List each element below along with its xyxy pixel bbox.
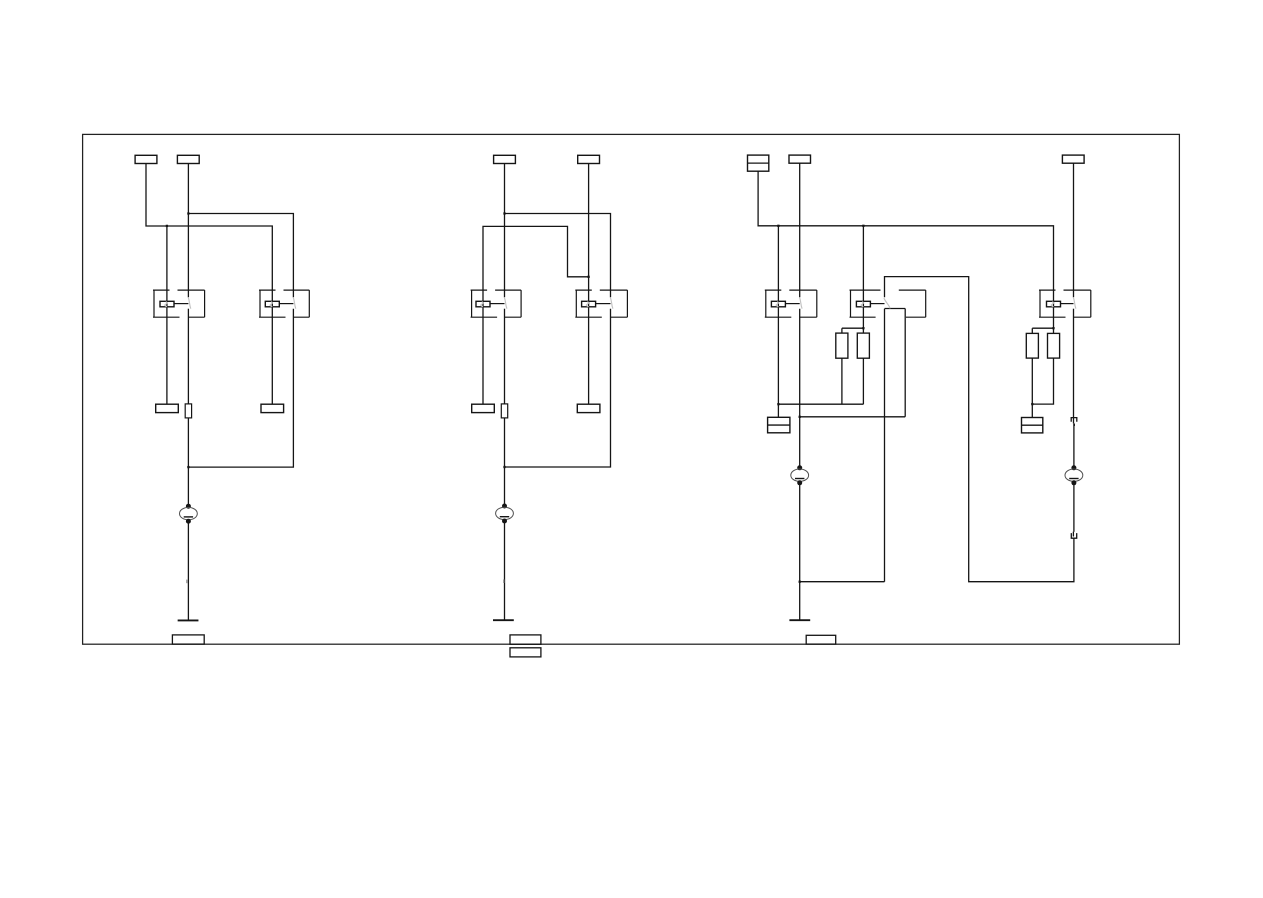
terminal B4	[806, 635, 836, 644]
terminal T7	[472, 404, 495, 412]
relay K7 contact arm	[1073, 297, 1076, 308]
wire T9 to relay K7 coil	[758, 171, 1053, 333]
wire resistor bottoms to terminal T13	[1032, 358, 1053, 417]
wire T1 to relay K2 coil	[146, 164, 272, 405]
terminal T8	[577, 404, 600, 412]
wire lamp E2 to ground	[504, 521, 506, 620]
node J10	[799, 581, 801, 583]
wire branch to relay K1 coil	[166, 226, 168, 404]
relay K4 contact arm	[610, 297, 613, 308]
resistor R1	[836, 333, 848, 358]
wire relay K4 contact to node J6	[505, 309, 611, 467]
relay K4 box	[575, 290, 627, 317]
node J6	[503, 466, 505, 468]
relay K3 coil	[476, 301, 490, 307]
wire T10 to relay K5 contact	[799, 163, 801, 297]
ground G1	[178, 619, 199, 621]
wire T11 to relay K7 contact	[1073, 163, 1075, 297]
terminal T4	[261, 404, 284, 412]
terminal T5	[494, 155, 516, 163]
wire relay K2 contact to node J3	[188, 309, 293, 467]
terminal T13	[1022, 418, 1043, 433]
wire relay K6 NO contact drop	[904, 309, 906, 417]
wire jog to relay K3 coil	[483, 226, 589, 404]
wire relay K3 contact to connector X2	[504, 309, 506, 404]
node J5	[587, 276, 589, 278]
node J2	[187, 212, 189, 214]
splice S1	[186, 580, 188, 584]
relay K5 contact arm	[800, 297, 803, 308]
wire lamp E1 to ground	[187, 521, 189, 620]
relay K3 coil-contact link	[490, 303, 505, 305]
relay K5 coil-contact link	[785, 303, 799, 305]
wire relay K7 contact to connector C1	[1073, 309, 1075, 418]
wire relay K1 contact to connector X1	[187, 309, 189, 404]
relay K6 contact arm	[884, 298, 890, 308]
relay K1 box	[153, 290, 205, 317]
wire lamp E3 to ground	[799, 483, 801, 621]
ground G2	[493, 619, 514, 621]
resistor R2	[857, 333, 869, 358]
wire node J9 to relay K6 NO contact	[800, 416, 906, 418]
node J3	[187, 466, 189, 468]
connector X1	[185, 404, 191, 418]
relay K3 box	[471, 290, 521, 317]
wire connector X2 to lamp E2	[504, 418, 506, 506]
node J9	[799, 416, 801, 418]
relay K4 coil	[582, 301, 596, 307]
wire resistor bottoms to node J12	[778, 358, 863, 404]
relay K6 coil-contact link	[870, 303, 884, 305]
terminal B2	[510, 635, 541, 644]
lamp E4	[1065, 465, 1083, 485]
node J8	[862, 225, 864, 227]
lamp E3	[791, 465, 809, 485]
relay K2 coil-contact link	[279, 303, 293, 305]
node J14	[1031, 403, 1033, 405]
wire T5 to relay K3 contact	[504, 164, 506, 298]
terminal T2	[177, 155, 199, 163]
wire relay K5 contact to lamp E3	[799, 309, 801, 468]
wire lamp E4 to connector C2	[1073, 483, 1075, 532]
relay K7 coil	[1047, 301, 1061, 307]
wire connector X1 to lamp E1	[187, 418, 189, 506]
terminal B1	[172, 635, 204, 644]
splice S2	[503, 579, 505, 583]
node J7	[777, 225, 779, 227]
wire branch to relay K5 coil	[777, 226, 779, 417]
ground G3	[789, 619, 810, 621]
node J13	[1052, 327, 1054, 329]
relay K5 coil	[771, 301, 785, 307]
relay K7 box	[1039, 290, 1091, 317]
node J11	[862, 327, 864, 329]
terminal T6	[578, 155, 600, 163]
terminal T12	[768, 417, 790, 433]
relay K7 coil-contact link	[1061, 303, 1074, 305]
relay K2 contact arm	[293, 297, 296, 308]
wire branch to relay K4 contact	[505, 214, 611, 298]
terminal T1	[135, 155, 157, 163]
wire T2 to relay K1 contact	[187, 164, 189, 298]
relay K1 coil-contact link	[174, 303, 188, 305]
wire relay K6 common loop	[885, 277, 1074, 582]
relay K1 coil	[160, 301, 174, 307]
connector C1	[1071, 418, 1077, 426]
node J1	[166, 225, 168, 227]
wire relay K6 NC contact to node J10	[884, 309, 886, 582]
wire branch to relay K6 coil	[862, 226, 864, 333]
wire resistor R3 top link	[1032, 328, 1053, 333]
relay K3 contact arm	[504, 297, 507, 308]
wire relay K6 NO link	[885, 308, 906, 310]
relay K2 coil	[265, 301, 279, 307]
connector C2	[1071, 532, 1076, 539]
terminal T3	[156, 404, 179, 412]
terminal T11	[1062, 155, 1084, 163]
connector X2	[501, 404, 507, 418]
wire node J10 link	[800, 581, 885, 583]
relay K5 box	[765, 290, 817, 317]
relay K2 box	[259, 290, 309, 317]
lamp E2	[496, 504, 514, 524]
lamp E1	[180, 504, 198, 524]
relay K6 box	[850, 290, 926, 317]
resistor R4	[1048, 333, 1060, 358]
resistor R3	[1026, 333, 1038, 358]
wire T6 to relay K4 coil	[588, 164, 590, 405]
node J12	[777, 403, 779, 405]
wire connector C1 to lamp E4	[1073, 424, 1075, 468]
terminal B3	[510, 648, 541, 657]
wire branch to relay K2 contact	[188, 214, 293, 298]
node J4	[503, 212, 505, 214]
wire resistor R1 top link	[842, 328, 864, 333]
relay K1 contact arm	[188, 297, 191, 308]
relay K4 coil-contact link	[596, 303, 611, 305]
terminal T10	[789, 155, 811, 163]
relay K6 coil	[856, 301, 870, 307]
terminal T9	[748, 155, 769, 171]
